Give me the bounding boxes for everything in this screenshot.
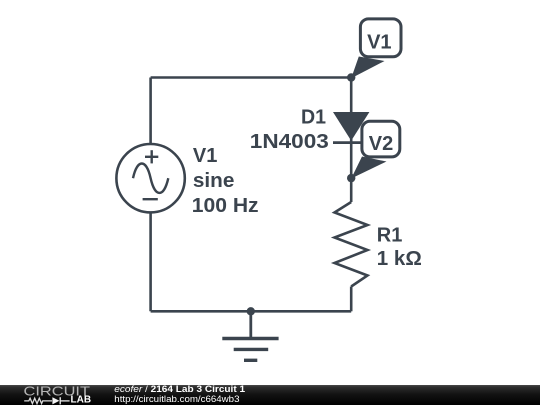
svg-text:1N4003: 1N4003: [250, 131, 329, 153]
junction dot top: [347, 73, 355, 81]
svg-text:1 kΩ: 1 kΩ: [377, 248, 422, 270]
node flag V1: [351, 19, 401, 78]
svg-text:V1: V1: [367, 32, 391, 54]
wire right rail lower: [350, 287, 353, 312]
svg-text:D1: D1: [301, 107, 326, 129]
svg-text:100 Hz: 100 Hz: [192, 195, 259, 217]
svg-text:V1: V1: [193, 145, 217, 167]
junction dot mid: [347, 174, 355, 182]
ground: [222, 311, 278, 360]
svg-text:http://circuitlab.com/c664wb3: http://circuitlab.com/c664wb3: [114, 394, 239, 405]
footer bar: [0, 385, 540, 405]
svg-text:V2: V2: [369, 133, 393, 155]
node flag V2: [351, 121, 400, 178]
wire right rail upper: [350, 78, 353, 203]
resistor R1: [335, 202, 368, 287]
wire bottom horizontal: [151, 310, 352, 313]
svg-text:sine: sine: [193, 170, 235, 192]
wire left rail: [149, 78, 152, 312]
svg-text:R1: R1: [377, 225, 403, 247]
svg-text:LAB: LAB: [71, 394, 92, 405]
wire top horizontal: [151, 76, 352, 79]
voltage source V1: [116, 144, 184, 212]
junction dot ground: [247, 307, 255, 315]
logo icon: [24, 397, 69, 404]
diode D1: [333, 112, 369, 143]
